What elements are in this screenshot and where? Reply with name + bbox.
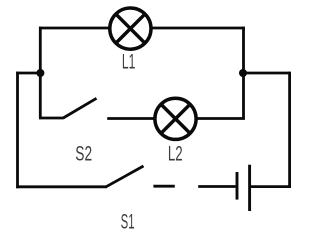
wire S2 contact to L2 [107, 117, 156, 120]
wire left vertical (top corner down through junction to S2) [39, 27, 42, 119]
svg-text:L1: L1 [122, 51, 135, 74]
switch S1 contact dash [153, 185, 174, 188]
wire right outer vertical [288, 72, 291, 188]
svg-text:S2: S2 [75, 143, 92, 166]
battery BT1 long plate [248, 165, 251, 211]
wire S2 left lead [39, 117, 64, 120]
wire outer-left vertical [16, 72, 19, 189]
node junction right [239, 69, 247, 77]
switch S1 blade [106, 166, 144, 187]
wire battery to right outer [250, 185, 291, 188]
wire right outer to junction [243, 72, 290, 75]
wire top-left horizontal [39, 27, 110, 30]
lamp L2 [155, 98, 196, 139]
svg-text:S1: S1 [121, 211, 135, 234]
lamp L1 [110, 8, 151, 49]
svg-text:L2: L2 [168, 143, 183, 166]
wire L2 to right inner vertical [195, 117, 245, 120]
wire junction-left to outer-left [16, 72, 40, 75]
wire top-right horizontal [151, 27, 245, 30]
battery BT1 short plate [236, 172, 239, 200]
wire right inner vertical [242, 27, 245, 119]
wire S1 to battery [198, 185, 235, 188]
node junction left [36, 69, 44, 77]
switch S2 blade [63, 98, 96, 118]
wire bottom horizontal to S1 [16, 185, 107, 188]
